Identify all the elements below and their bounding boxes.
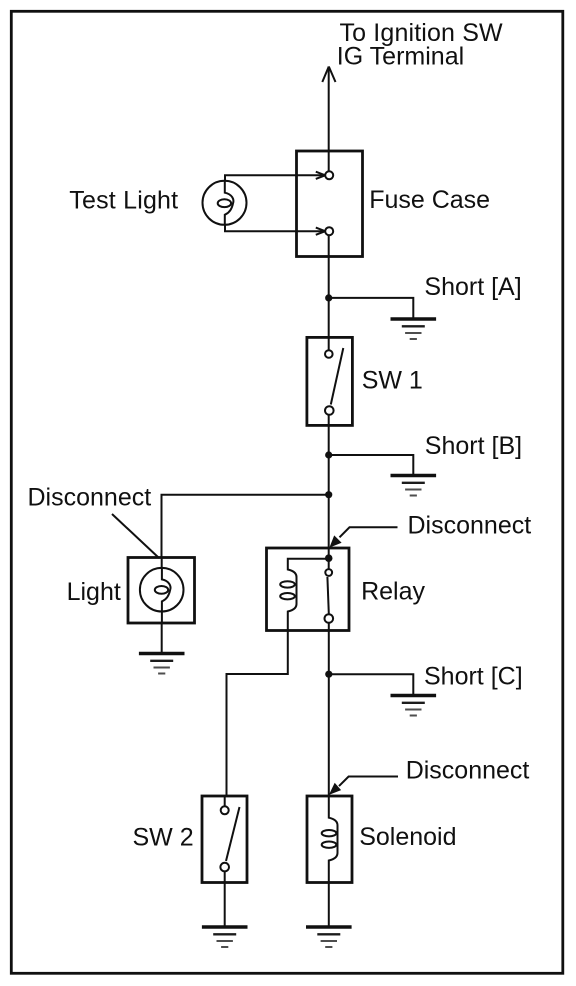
- label To Ignition SW IG Terminal: [337, 19, 503, 71]
- wire out of relay: [328, 623, 330, 632]
- relay coil: [280, 559, 329, 632]
- switch SW1 contact top: [325, 350, 333, 358]
- svg-text:Short [C]: Short [C]: [424, 663, 523, 691]
- relay box: [267, 548, 350, 631]
- switch SW1 blade: [331, 348, 344, 405]
- wire test light bottom: [225, 224, 324, 231]
- svg-text:Short [A]: Short [A]: [424, 273, 521, 301]
- pointer arrow disconnect middle: [329, 527, 397, 547]
- wire into SW1: [328, 337, 330, 350]
- wire into relay: [328, 548, 330, 569]
- wire inside fuse case bottom: [328, 235, 330, 256]
- switch SW2 contact top: [221, 806, 229, 814]
- svg-text:SW 2: SW 2: [133, 824, 194, 852]
- pointer line disconnect left: [112, 514, 159, 558]
- wire relay coil to SW2: [227, 632, 288, 797]
- node short B: [325, 451, 332, 458]
- relay switch contact top: [325, 569, 332, 576]
- solenoid coil: [322, 796, 338, 883]
- svg-text:Test Light: Test Light: [69, 187, 178, 215]
- svg-text:IG Terminal: IG Terminal: [337, 43, 464, 71]
- wire test light top: [225, 175, 324, 182]
- test light lamp: [203, 181, 247, 225]
- wire relay to solenoid: [328, 632, 330, 797]
- svg-text:Disconnect: Disconnect: [28, 484, 152, 512]
- fuse case box: [297, 151, 363, 257]
- wire out of SW1: [328, 415, 330, 426]
- ground short A: [391, 319, 437, 339]
- node short A: [325, 294, 332, 301]
- lamp light: [140, 558, 184, 624]
- svg-text:SW 1: SW 1: [362, 367, 423, 395]
- switch SW1 box: [307, 337, 353, 425]
- svg-text:Disconnect: Disconnect: [406, 756, 530, 784]
- wire solenoid to ground: [328, 883, 330, 928]
- wire light to ground: [161, 623, 163, 654]
- ground short B: [391, 476, 437, 496]
- svg-text:Fuse Case: Fuse Case: [369, 186, 490, 214]
- svg-text:Relay: Relay: [361, 577, 425, 605]
- arrow at fuse terminal 2: [316, 228, 325, 235]
- pointer arrow disconnect bottom: [329, 777, 398, 795]
- wire SW1 to relay: [328, 425, 330, 548]
- switch SW2 box: [202, 796, 247, 883]
- svg-text:Solenoid: Solenoid: [359, 823, 456, 851]
- node disconnect branch: [325, 491, 332, 498]
- ground light: [139, 654, 185, 674]
- node relay coil junction: [325, 554, 333, 562]
- svg-text:Disconnect: Disconnect: [408, 512, 532, 540]
- wire from arrow to fuse case: [328, 67, 330, 152]
- wire short C branch: [329, 674, 414, 695]
- wire short A branch: [329, 298, 414, 319]
- wire SW2 to ground: [224, 883, 226, 928]
- ground SW2: [202, 927, 248, 947]
- wire out of SW2: [224, 871, 226, 882]
- switch SW1 contact bottom: [325, 406, 334, 415]
- light box: [128, 558, 195, 624]
- wire disconnect branch to light: [162, 495, 329, 558]
- wire into SW2: [224, 796, 226, 806]
- fuse terminal 1: [325, 171, 333, 179]
- arrow at fuse terminal 1: [316, 172, 325, 179]
- solenoid box: [307, 796, 352, 883]
- ground short C: [391, 696, 437, 716]
- svg-text:Short [B]: Short [B]: [425, 432, 522, 460]
- switch SW2 contact bottom: [220, 863, 229, 872]
- wire fuse case to SW1: [328, 257, 330, 338]
- relay switch blade: [327, 577, 328, 614]
- ground solenoid: [306, 927, 352, 947]
- wire short B branch: [329, 455, 414, 476]
- svg-text:Light: Light: [67, 578, 121, 606]
- relay switch contact bottom: [325, 614, 334, 623]
- switch SW2 blade: [226, 807, 240, 861]
- arrow to ignition switch: [322, 67, 335, 83]
- node short C: [325, 671, 332, 678]
- fuse terminal 2: [325, 227, 333, 235]
- wire inside fuse case top: [328, 151, 330, 172]
